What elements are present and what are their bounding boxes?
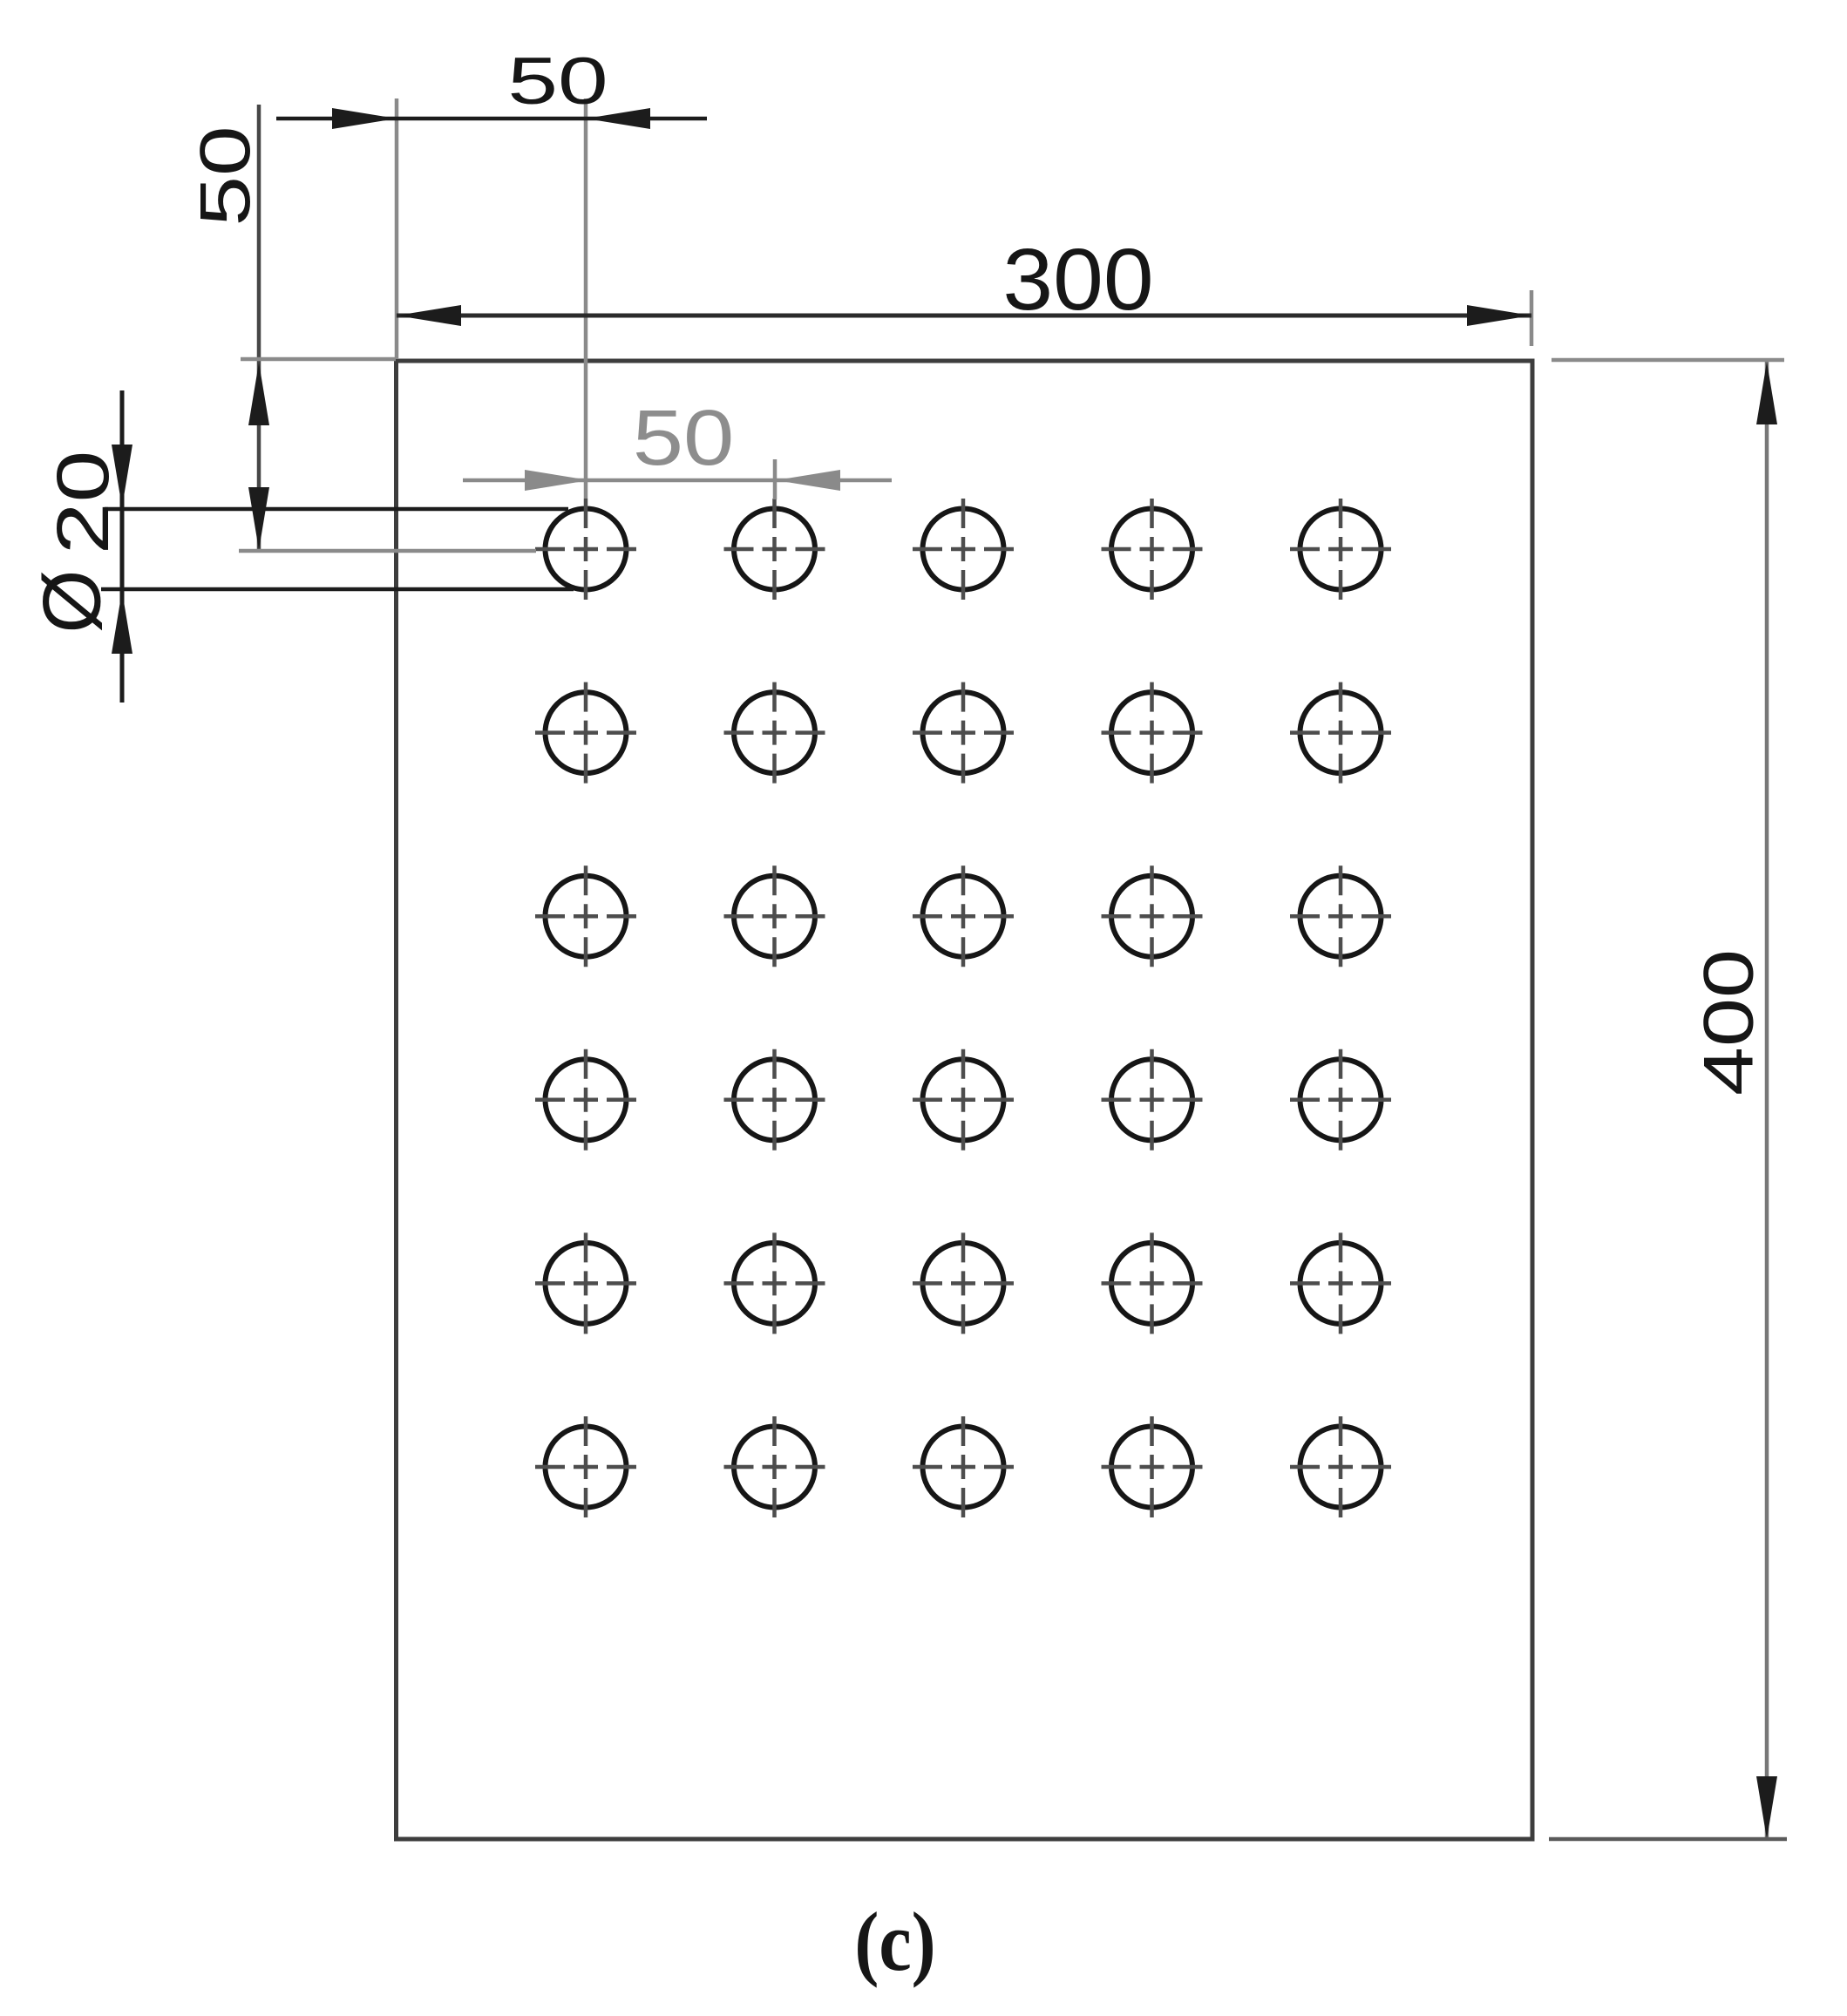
hole C4R2 bbox=[1102, 682, 1203, 784]
hole C5R4 bbox=[1290, 1049, 1391, 1151]
dimension 400 bbox=[1689, 361, 1777, 1839]
plate outline bbox=[397, 361, 1533, 1839]
dimension 50 top bbox=[276, 44, 707, 129]
extension line 400 bottom bbox=[1549, 1837, 1787, 1842]
hole C2R4 bbox=[724, 1049, 825, 1151]
extension line plate-top left bbox=[241, 357, 396, 362]
hole C5R3 bbox=[1290, 865, 1391, 967]
dimension 50 gray bbox=[463, 394, 892, 499]
svg-text:300: 300 bbox=[1002, 231, 1153, 329]
hole C3R3 bbox=[913, 865, 1014, 967]
hole C3R5 bbox=[913, 1232, 1014, 1334]
hole C5R6 bbox=[1290, 1416, 1391, 1517]
hole C4R6 bbox=[1102, 1416, 1203, 1517]
hole C3R1 bbox=[913, 499, 1014, 600]
hole C1R3 bbox=[535, 865, 636, 967]
hole C1R4 bbox=[535, 1049, 636, 1151]
hole C3R6 bbox=[913, 1416, 1014, 1517]
svg-text:50: 50 bbox=[507, 44, 608, 118]
hole C5R2 bbox=[1290, 682, 1391, 784]
svg-text:20: 20 bbox=[43, 451, 124, 555]
extension line 300 right bbox=[1530, 290, 1534, 346]
hole C2R6 bbox=[724, 1416, 825, 1517]
hole C1R1 bbox=[535, 499, 636, 600]
hole C5R1 bbox=[1290, 499, 1391, 600]
hole C2R2 bbox=[724, 682, 825, 784]
dimension diameter-20 bbox=[25, 390, 574, 703]
hole C1R2 bbox=[535, 682, 636, 784]
caption (c) bbox=[854, 1896, 935, 1988]
hole C1R5 bbox=[535, 1232, 636, 1334]
hole C2R3 bbox=[724, 865, 825, 967]
hole C2R1 bbox=[724, 499, 825, 600]
hole C3R4 bbox=[913, 1049, 1014, 1151]
hole C4R1 bbox=[1102, 499, 1203, 600]
hole C1R6 bbox=[535, 1416, 636, 1517]
hole C4R3 bbox=[1102, 865, 1203, 967]
hole C3R2 bbox=[913, 682, 1014, 784]
svg-text:50: 50 bbox=[633, 394, 735, 481]
svg-text:50: 50 bbox=[184, 126, 264, 226]
dimension 300 bbox=[397, 231, 1531, 329]
extension line 400 top bbox=[1552, 358, 1784, 363]
hole C5R5 bbox=[1290, 1232, 1391, 1334]
hole C2R5 bbox=[724, 1232, 825, 1334]
hole C4R4 bbox=[1102, 1049, 1203, 1151]
svg-text:(c): (c) bbox=[854, 1896, 935, 1988]
extension line row-1 center left bbox=[239, 549, 536, 553]
extension line column-1 center bbox=[584, 98, 588, 499]
svg-text:Ø: Ø bbox=[25, 569, 117, 633]
dimension 50 left bbox=[184, 105, 269, 552]
hole C4R5 bbox=[1102, 1232, 1203, 1334]
svg-text:400: 400 bbox=[1689, 949, 1768, 1096]
extension line plate-left-edge up bbox=[395, 98, 399, 359]
